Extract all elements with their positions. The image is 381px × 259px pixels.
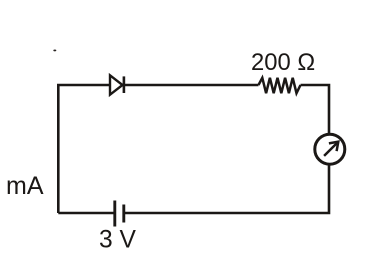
diode D1 bbox=[110, 75, 124, 94]
battery B1 3V bbox=[115, 201, 124, 227]
wire top-left segment bbox=[58, 85, 110, 213]
ammeter M1 bbox=[315, 134, 345, 164]
svg-text:200 Ω: 200 Ω bbox=[251, 49, 315, 76]
svg-text:mA: mA bbox=[6, 172, 44, 200]
resistor R1 200 ohm bbox=[259, 78, 301, 93]
wire resistor to top-right corner down to meter bbox=[301, 85, 330, 134]
stray dot bbox=[53, 49, 56, 51]
wire meter to bottom-right corner bbox=[125, 164, 329, 213]
svg-text:3 V: 3 V bbox=[99, 226, 137, 253]
wire bottom-left segment bbox=[58, 212, 115, 215]
wire diode to resistor bbox=[124, 84, 259, 87]
